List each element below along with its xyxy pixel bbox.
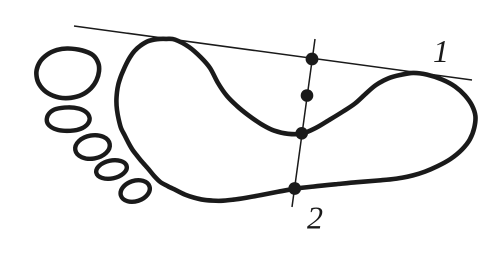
node dot bottom (sole) [288, 182, 301, 195]
node dot third (arch) [295, 127, 308, 140]
node dot top (on line 1) [306, 53, 319, 66]
measuring line 2 [292, 39, 315, 207]
svg-text:1: 1 [433, 33, 449, 69]
footprint outline [116, 39, 475, 201]
second toe [47, 107, 90, 130]
tangent line 1 [74, 26, 472, 80]
node dot second [301, 89, 314, 102]
big toe [36, 48, 99, 98]
fourth toe [94, 158, 128, 182]
svg-text:2: 2 [307, 200, 323, 236]
third toe [73, 133, 111, 162]
fifth toe [118, 177, 153, 206]
